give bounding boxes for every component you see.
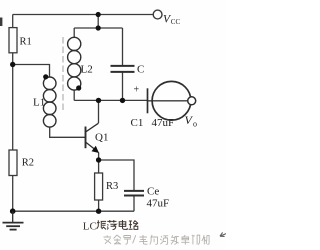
svg-text:L1: L1: [33, 97, 45, 109]
wire L1 bottom to base: [50, 127, 85, 137]
svg-text:C1: C1: [131, 117, 144, 129]
svg-text:L2: L2: [81, 64, 93, 76]
wire tank top: [74, 27, 122, 29]
node emitter junction: [96, 157, 101, 162]
svg-text:R2: R2: [22, 157, 34, 168]
capacitor Ce: [124, 191, 144, 196]
node collector junction: [96, 98, 101, 103]
wire tank drop: [97, 15, 99, 29]
terminal Vo: [188, 97, 196, 105]
watermark arrow: [220, 232, 226, 236]
capacitor C1 plate: [147, 88, 149, 113]
node L1 top dot: [43, 74, 48, 79]
caption char dang: [107, 220, 117, 230]
left edge artifact: [0, 18, 2, 27]
svg-text:Ce: Ce: [147, 186, 159, 198]
inductor L2: [68, 37, 81, 90]
node R3 bottom junction: [96, 209, 101, 214]
svg-text:LC: LC: [83, 221, 97, 233]
node top rail junction: [96, 12, 101, 17]
wire C top lead: [122, 28, 124, 66]
wire emitter lead: [98, 152, 100, 160]
speaker circle: [152, 81, 191, 120]
wire C bottom lead: [122, 72, 124, 100]
svg-text:R3: R3: [106, 181, 118, 192]
emitter arrowhead: [92, 146, 100, 153]
wire collector rail: [74, 99, 147, 101]
node L2 bottom dot: [76, 85, 81, 90]
svg-text:+: +: [134, 85, 140, 96]
wire L2 bottom lead: [73, 90, 75, 101]
caption char lu: [129, 220, 138, 229]
caption char dian: [119, 220, 127, 229]
watermark toutiao: [104, 235, 210, 245]
transistor Q1: [86, 123, 99, 152]
wire top rail: [13, 14, 153, 16]
wire emitter to Ce: [99, 160, 134, 191]
wire bottom rail: [13, 210, 134, 212]
wire R3 top lead: [98, 160, 100, 173]
wire Ce bottom lead: [133, 196, 135, 212]
wire C1 out: [148, 100, 188, 102]
svg-text:o: o: [193, 120, 197, 129]
resistor R3: [95, 173, 103, 200]
inductor L1: [43, 77, 56, 127]
ground: [3, 211, 24, 229]
wire collector: [98, 100, 100, 123]
resistor R2: [9, 150, 17, 176]
capacitor C: [111, 66, 135, 72]
resistor R1: [9, 28, 17, 53]
wire left rail top: [12, 15, 14, 28]
caption char zhen: [97, 220, 106, 229]
svg-text:R1: R1: [20, 36, 32, 47]
node tank junction: [96, 25, 101, 30]
svg-text:47uF: 47uF: [147, 198, 170, 210]
wire junction to L1 top: [13, 65, 50, 78]
wire R3 bottom lead: [98, 200, 100, 211]
svg-text:CC: CC: [171, 18, 181, 26]
core dashed coupling line: [62, 37, 64, 112]
wire R2 to ground: [12, 176, 14, 212]
node C bottom junction: [120, 98, 125, 103]
svg-text:C: C: [137, 64, 144, 76]
wire L2 top lead: [73, 28, 75, 37]
node junction R1 R2 L1: [10, 62, 15, 67]
svg-text:Q1: Q1: [95, 132, 108, 144]
terminal Vcc: [153, 10, 162, 19]
node ground junction: [10, 208, 16, 214]
wire R1 to junction: [12, 53, 14, 150]
